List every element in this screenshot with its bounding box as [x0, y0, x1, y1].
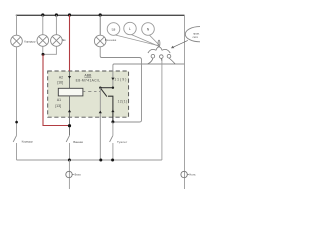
svg-text:ABB: ABB — [84, 74, 92, 78]
svg-text:A1: A1 — [57, 98, 61, 102]
wire A2 inside module to coil — [69, 71, 71, 88]
wire bottom bus — [17, 159, 162, 161]
wire lamp3 drop and link to lamp2 — [43, 15, 56, 54]
node lamp4 junction on top bus — [99, 13, 102, 16]
wire bus riser to socket pin L — [161, 59, 163, 160]
connector plug — [148, 40, 176, 64]
svg-text:Ванная: Ванная — [73, 140, 83, 144]
node A1-red junction — [68, 124, 71, 127]
callout ellipse socket note — [185, 27, 214, 42]
terminal arrow A1 — [68, 110, 71, 113]
wire phase feed down left — [68, 160, 70, 189]
wire circle L — [124, 22, 136, 34]
wire lead L to plug — [132, 35, 159, 47]
wire red lamp return to A1 node — [43, 55, 69, 126]
arrow callout to plug — [172, 40, 188, 47]
node lamps 2-3 junction — [42, 53, 45, 56]
node lamp2 junction on top bus — [41, 13, 44, 16]
wire circle N — [142, 23, 155, 36]
wire lamp2 drop — [42, 15, 44, 54]
wire lamp4 drop — [99, 15, 101, 35]
svg-text:E8-M741AC/L: E8-M741AC/L — [76, 79, 101, 83]
wire contact output down to switch3 — [112, 122, 114, 135]
terminal arrow A2 — [68, 76, 71, 79]
svg-text:12(1): 12(1) — [118, 100, 128, 104]
svg-text:Коридор: Коридор — [24, 39, 36, 43]
node bus-S3 — [111, 159, 114, 162]
svg-text:A2: A2 — [59, 76, 63, 80]
terminal arrow contact top — [111, 78, 114, 81]
lamp HL2 — [37, 35, 49, 47]
wire lead Ls to plug — [115, 35, 158, 46]
svg-text:[13]: [13] — [55, 104, 61, 108]
svg-text:Зал: Зал — [62, 38, 66, 42]
node bus-common — [99, 159, 102, 162]
wire circle Ls — [107, 23, 120, 36]
wire N column right — [184, 15, 186, 189]
svg-text:сети: сети — [193, 36, 199, 39]
wire lamp1 column — [16, 15, 18, 135]
wire A1 from coil down — [69, 96, 71, 135]
relay contact — [100, 88, 113, 122]
coil K1 — [58, 88, 83, 96]
wire lead N to plug — [150, 35, 160, 45]
svg-text:L: L — [129, 27, 131, 31]
terminal circle phase — [66, 171, 72, 177]
terminal circle neutral — [181, 171, 187, 177]
relay module ABB (dashed box) — [48, 71, 129, 117]
switch S2 — [66, 135, 69, 142]
node lamp1 column tap — [15, 121, 18, 124]
lamp HL4 — [94, 35, 106, 47]
svg-text:Туалет: Туалет — [117, 140, 128, 144]
wire lamp4 to relay contact output — [100, 47, 141, 122]
svg-text:Ноль: Ноль — [189, 173, 196, 177]
wire contact feed from socket — [113, 64, 185, 88]
switch S1 — [13, 135, 16, 142]
switch S3 — [110, 135, 113, 142]
wire red A2 feed — [69, 15, 71, 71]
svg-text:Коридор: Коридор — [22, 140, 34, 144]
node lamp3 junction on top bus — [55, 13, 58, 16]
node contact output — [111, 120, 114, 123]
wire contact common down — [99, 88, 101, 160]
svg-text:11(9): 11(9) — [114, 77, 126, 81]
node bus-S2 — [68, 159, 71, 162]
svg-text:Ванная: Ванная — [105, 38, 117, 42]
node red tap on top bus — [68, 13, 71, 16]
wire top bus L — [16, 14, 185, 16]
terminal arrow common — [99, 111, 102, 114]
terminal arrow contact bottom — [111, 110, 114, 113]
svg-text:Фаза: Фаза — [74, 173, 81, 177]
lamp HL3 — [51, 35, 63, 47]
svg-text:[16]: [16] — [57, 80, 63, 84]
svg-text:Lв: Lв — [112, 27, 116, 31]
lamp HL1 — [11, 35, 23, 47]
mechanical link coil to contact — [83, 91, 100, 93]
